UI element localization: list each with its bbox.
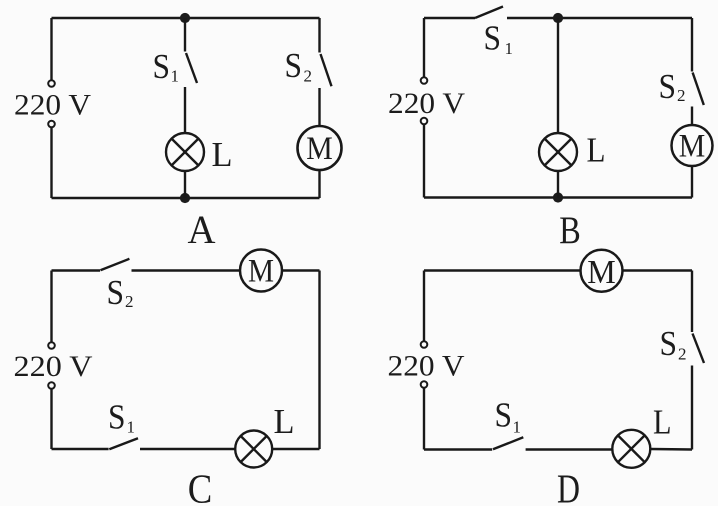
- junction: B bottom node: [553, 192, 563, 202]
- lamp L (B): [539, 133, 577, 171]
- svg-text:S: S: [484, 19, 502, 58]
- wire: A left side upper: [50, 18, 52, 80]
- wire: C top middle segment: [132, 269, 241, 271]
- switch S1 blade (B): [475, 7, 503, 19]
- svg-text:A: A: [188, 207, 216, 252]
- wire: B lamp upper lead: [557, 18, 559, 133]
- wire: A middle branch top lead: [184, 18, 186, 52]
- svg-text:220 V: 220 V: [14, 350, 93, 383]
- terminal: C source top: [48, 342, 55, 349]
- terminal: D source bottom: [421, 381, 428, 388]
- switch S2 blade (C): [100, 259, 129, 271]
- svg-text:S: S: [285, 46, 303, 85]
- wire: D top left segment: [424, 269, 581, 271]
- wire: D right side upper: [691, 271, 693, 333]
- wire: B right side upper: [691, 18, 693, 72]
- wire: B top right segment: [507, 17, 692, 19]
- wire: B top left segment: [424, 17, 475, 19]
- wire: C top right segment: [282, 269, 320, 271]
- svg-text:S: S: [108, 398, 126, 437]
- svg-text:1: 1: [127, 417, 136, 436]
- switch S2 blade (B): [693, 73, 704, 106]
- wire: A motor lower lead: [318, 170, 320, 199]
- svg-text:M: M: [679, 129, 706, 165]
- wire: B left side lower: [423, 125, 425, 198]
- switch S1 blade (C): [109, 438, 138, 449]
- wire: D left side upper: [423, 271, 425, 342]
- wire: D top right segment: [622, 269, 692, 271]
- wire: B lamp lower lead: [557, 171, 559, 198]
- svg-text:S: S: [153, 47, 171, 86]
- svg-text:2: 2: [677, 86, 686, 105]
- terminal: B source top: [421, 77, 428, 84]
- junction: A top node: [180, 13, 190, 23]
- svg-text:2: 2: [304, 67, 313, 86]
- wire: B motor lower lead: [691, 166, 693, 198]
- wire: D right side lower: [691, 366, 693, 450]
- lamp L (A): [166, 133, 204, 171]
- svg-text:M: M: [306, 131, 333, 167]
- svg-text:D: D: [557, 466, 580, 506]
- svg-text:S: S: [660, 324, 678, 363]
- wire: C left side upper: [50, 271, 52, 343]
- wire: A lamp upper lead: [184, 87, 186, 133]
- wire: B left side upper: [423, 18, 425, 77]
- motor M (A): [298, 126, 342, 170]
- switch S2 blade (D): [693, 334, 705, 364]
- switch S2 blade (A): [321, 54, 332, 86]
- svg-text:1: 1: [513, 417, 522, 436]
- wire: C bottom middle segment: [140, 448, 235, 450]
- lamp L (C): [235, 431, 272, 468]
- wire: A left side lower: [50, 128, 52, 198]
- switch S1 blade (D): [493, 437, 523, 449]
- wire: A motor upper lead: [318, 88, 320, 127]
- svg-text:M: M: [587, 254, 616, 291]
- wire: D bottom middle segment: [526, 448, 612, 450]
- wire: B bottom horizontal: [424, 196, 692, 198]
- svg-text:L: L: [212, 135, 233, 174]
- junction: A bottom node: [180, 193, 190, 203]
- svg-text:C: C: [188, 466, 213, 506]
- terminal: A source top: [48, 80, 55, 87]
- wire: C left side lower: [50, 389, 52, 449]
- wire: B motor upper lead: [691, 107, 693, 126]
- wire: C top left segment: [52, 269, 101, 271]
- svg-text:L: L: [274, 402, 295, 441]
- wire: A right branch top lead: [318, 18, 320, 53]
- wire: D bottom right segment: [651, 448, 692, 451]
- wire: D left side lower: [423, 388, 425, 450]
- terminal: B source bottom: [421, 118, 428, 125]
- svg-text:2: 2: [125, 292, 134, 311]
- wire: C bottom right segment: [273, 448, 320, 450]
- switch S1 blade (A): [186, 53, 197, 83]
- wire: C right side: [318, 271, 320, 450]
- svg-text:L: L: [653, 403, 672, 442]
- svg-text:220 V: 220 V: [388, 350, 465, 383]
- svg-text:B: B: [559, 209, 581, 252]
- svg-text:S: S: [659, 67, 677, 106]
- motor M (B): [672, 125, 713, 166]
- wire: A lamp lower lead: [184, 171, 186, 198]
- svg-text:220 V: 220 V: [14, 89, 91, 122]
- svg-text:S: S: [495, 396, 513, 435]
- terminal: D source top: [421, 341, 428, 348]
- svg-text:S: S: [107, 273, 125, 312]
- junction: B top node: [553, 13, 563, 23]
- wire: D bottom left segment: [424, 448, 492, 450]
- terminal: A source bottom: [48, 121, 55, 128]
- svg-text:L: L: [587, 131, 606, 170]
- svg-text:1: 1: [505, 39, 514, 58]
- wire: C bottom left segment: [52, 448, 109, 450]
- svg-text:M: M: [248, 254, 274, 290]
- motor M (C): [240, 250, 282, 292]
- terminal: C source bottom: [48, 382, 55, 389]
- svg-text:220 V: 220 V: [388, 87, 465, 120]
- motor M (D): [581, 250, 623, 292]
- svg-text:2: 2: [678, 345, 687, 364]
- lamp L (D): [612, 430, 650, 468]
- svg-text:1: 1: [171, 67, 180, 86]
- wire: A bottom horizontal: [52, 197, 320, 199]
- wire: A top horizontal: [52, 17, 320, 19]
